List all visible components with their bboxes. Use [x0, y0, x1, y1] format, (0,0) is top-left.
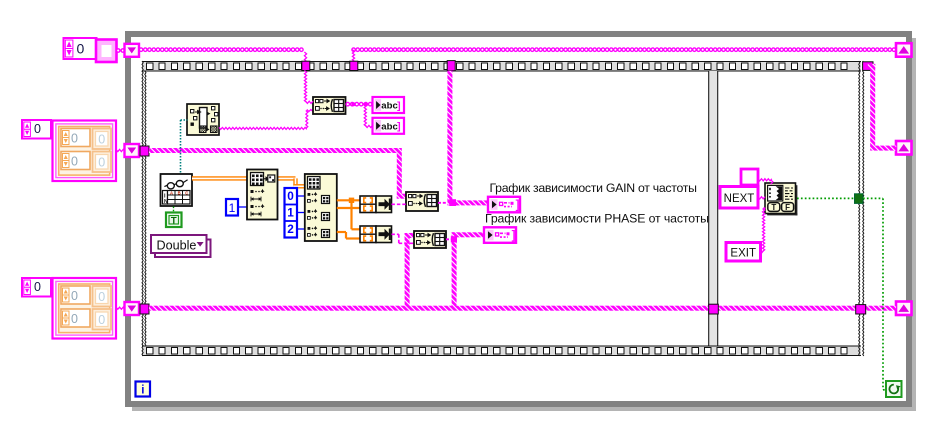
iteration terminal i	[136, 382, 151, 397]
tunnel T9 (green, right border)	[855, 194, 863, 204]
svg-text:0: 0	[98, 290, 105, 304]
while loop border	[128, 34, 909, 404]
node U2 Read From Spreadsheet File	[161, 174, 193, 206]
node G index array	[247, 170, 278, 220]
tunnel T4 (top-right corner)	[863, 62, 873, 71]
svg-text:0: 0	[77, 41, 85, 57]
ring constant Double	[151, 235, 211, 257]
square boolean/frame control	[96, 40, 117, 63]
svg-text:]: ]	[397, 100, 401, 112]
right shift register SR3	[896, 302, 912, 316]
wire: NEXT to U5	[758, 197, 765, 199]
wire: node K2 output	[446, 238, 453, 240]
svg-text:0: 0	[34, 280, 41, 294]
node U5 Two Button Dialog	[765, 183, 797, 215]
node L build-array (strings)	[313, 97, 346, 114]
svg-text:T: T	[771, 203, 776, 212]
wire: boolean to loop condition	[863, 198, 886, 389]
cluster control CL2	[53, 278, 117, 339]
XY graph terminal 1	[488, 197, 520, 213]
numeric control "0" bottom-left	[22, 278, 51, 297]
while loop drop shadow	[132, 38, 916, 411]
cluster control CL1	[53, 121, 117, 182]
svg-text:Double: Double	[157, 238, 197, 252]
node J triple index array	[305, 174, 337, 241]
small boolean control (hidden label)	[741, 169, 758, 185]
svg-text:C: C	[185, 190, 188, 195]
wire: EXIT to U5	[761, 208, 766, 253]
wire: J row1 to bundle1 input1	[337, 199, 360, 201]
label: GAIN graph	[490, 181, 698, 195]
wire: 0 to J	[297, 195, 305, 197]
left shift register SR1	[125, 44, 140, 57]
wire: tunnel T3 down to K output junction	[447, 71, 488, 206]
tunnel T6 (left border, bottom)	[140, 304, 149, 314]
right shift register SR2	[896, 141, 912, 155]
junction dots on L output	[352, 102, 368, 106]
wire: control to left shift register 1	[116, 49, 124, 52]
svg-text:T: T	[171, 216, 177, 227]
tunnel T8 (right border, bottom)	[856, 305, 866, 314]
wire: branch from bottom wire to XY2 and K2 output junction	[452, 232, 484, 308]
wire: string wire U1 to node L	[219, 110, 313, 130]
wire: branch up from bottom wire to node K2	[405, 233, 414, 308]
loop condition terminal (continue if true)	[886, 381, 902, 397]
svg-text:1: 1	[229, 201, 236, 215]
wire: node K output	[438, 202, 449, 204]
wire: bundle B1 to node K	[392, 203, 407, 205]
svg-text:0: 0	[71, 289, 78, 303]
flat sequence top filmstrip border	[142, 61, 861, 72]
svg-text:EXIT: EXIT	[730, 247, 756, 259]
wire: cluster CL2 to SR3	[116, 307, 125, 309]
wire: 2D array U2 to index node G	[192, 176, 247, 180]
flat sequence left border	[142, 61, 146, 356]
wire: tunnel T4 to right SR2	[868, 64, 896, 151]
bundle node B2	[360, 226, 392, 243]
svg-text:B: B	[178, 190, 181, 195]
wire: orange branch down to bundle2 input1	[352, 200, 361, 229]
node K2 build-array (XY2)	[414, 231, 446, 248]
wire: bundle B2 to node K2	[392, 234, 415, 243]
svg-text:График зависимости PHASE от ча: График зависимости PHASE от частоты	[485, 212, 709, 226]
numeric control "0" mid-left	[22, 120, 51, 139]
flat sequence frame divider	[709, 71, 718, 346]
boolean control EXIT	[726, 243, 761, 262]
svg-text:]: ]	[397, 121, 401, 133]
svg-text:0: 0	[71, 131, 78, 145]
junction on XY2 wire	[451, 236, 457, 242]
wire: 1 to J	[297, 212, 305, 214]
string indicator terminal abc2	[373, 118, 405, 134]
svg-text:i: i	[141, 385, 144, 397]
wire: SR1 chain across top	[139, 48, 895, 51]
right shift register SR1	[896, 43, 912, 57]
wire: J row3 to bundle2 input2	[337, 232, 360, 239]
svg-text:2: 2	[287, 222, 294, 236]
svg-text:0: 0	[34, 122, 41, 136]
svg-text:]: ]	[516, 200, 520, 212]
wire: cluster CL1 to SR2	[116, 149, 125, 151]
wire: SR3 cluster-array wire across bottom	[149, 306, 896, 311]
wire: small control to U5	[758, 179, 773, 184]
svg-text:abc: abc	[381, 121, 398, 132]
wire: drop from top chain into tunnel T1	[304, 52, 306, 62]
tunnel T2 (top border x=350)	[350, 61, 358, 70]
wire: teal path wire U1 to U2	[181, 120, 188, 174]
wire: J row2 to bundle1 input2	[337, 207, 360, 209]
svg-text:График зависимости GAIN от час: График зависимости GAIN от частоты	[490, 181, 698, 195]
tunnel T1 (top border x=302)	[302, 61, 310, 70]
boolean control NEXT	[720, 187, 758, 209]
svg-text:0: 0	[98, 313, 105, 327]
label: PHASE graph	[485, 212, 709, 226]
node K build-array (XY1)	[406, 192, 438, 211]
svg-text:0: 0	[98, 132, 105, 146]
tunnel T7 (divider)	[709, 304, 719, 314]
junction on orange wire	[349, 198, 354, 203]
node U1 (cluster/array conversion icon)	[187, 104, 219, 135]
tunnel T5 (left border, mid)	[140, 146, 149, 156]
svg-text:NEXT: NEXT	[724, 193, 755, 205]
flat sequence right border	[859, 61, 864, 356]
wire: U5 boolean output to tunnel	[797, 197, 855, 199]
junction on XY1 wire	[449, 199, 456, 206]
svg-text:1: 1	[287, 206, 294, 220]
svg-text:F: F	[785, 203, 790, 212]
array constant [0 1 2]	[285, 188, 298, 238]
wire: 2 to J	[297, 228, 305, 230]
svg-text:abc: abc	[381, 101, 398, 112]
flat sequence bottom filmstrip border	[142, 346, 861, 357]
tunnel T3 (top border x=447)	[447, 61, 455, 71]
boolean constant T	[166, 207, 182, 228]
numeric constant "1"	[226, 199, 247, 216]
numeric control "0" top-left	[64, 38, 97, 59]
wire: tunnel T1 down to node L	[304, 71, 313, 104]
wire: node L output chain	[346, 102, 372, 105]
svg-text:0: 0	[287, 189, 294, 203]
wire: SR2 cluster-array wire to node K	[149, 148, 406, 199]
left shift register SR3	[125, 302, 140, 315]
left shift register SR2	[125, 144, 140, 157]
bundle node B1	[360, 196, 392, 213]
wire: 2D array G to J	[278, 178, 306, 186]
XY graph terminal 2	[484, 227, 516, 243]
svg-text:0: 0	[71, 154, 78, 168]
wire: rise from tunnel T2 to top chain	[352, 50, 354, 62]
string indicator terminal abc1	[373, 97, 405, 113]
svg-text:0: 0	[71, 312, 78, 326]
wire: branch down to string indicator 2	[364, 104, 372, 127]
svg-text:A: A	[170, 190, 173, 195]
svg-text:]: ]	[512, 230, 516, 242]
svg-text:0: 0	[98, 155, 105, 169]
